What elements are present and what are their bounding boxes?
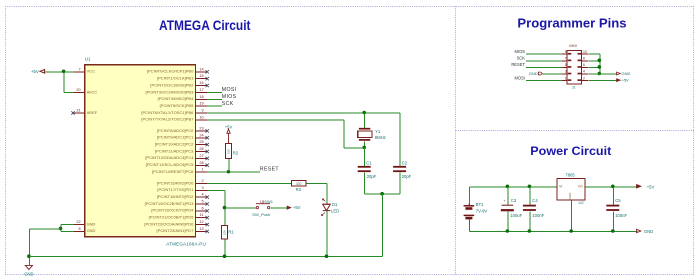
svg-text:[PCINT19/OC2B/INT1]PD3: [PCINT19/OC2B/INT1]PD3 [145, 201, 195, 206]
svg-text:[PCINT5/SCK]PB5: [PCINT5/SCK]PB5 [160, 103, 194, 108]
svg-text:9: 9 [201, 109, 203, 113]
svg-text:[PCINT20/XCK/T0]PD4: [PCINT20/XCK/T0]PD4 [151, 208, 194, 213]
svg-text:18: 18 [199, 95, 203, 99]
svg-text:RESET: RESET [260, 167, 280, 173]
svg-text:7V-9V: 7V-9V [476, 209, 488, 214]
svg-text:SCK: SCK [222, 101, 234, 107]
svg-text:[PCINT23/AIN1]PD7: [PCINT23/AIN1]PD7 [157, 228, 195, 233]
svg-text:100uF: 100uF [510, 213, 522, 218]
svg-text:GND: GND [87, 221, 96, 226]
svg-text:C4: C4 [532, 198, 538, 203]
svg-text:[PCINT22/OC0A/AIN0]PD6: [PCINT22/OC0A/AIN0]PD6 [144, 221, 194, 226]
svg-text:28: 28 [199, 161, 203, 165]
svg-text:GND: GND [622, 71, 631, 76]
svg-text:10: 10 [583, 50, 587, 54]
svg-text:10: 10 [199, 115, 203, 119]
svg-text:6: 6 [583, 63, 585, 67]
svg-text:1: 1 [201, 168, 203, 172]
svg-text:[PCINT1/OC1A]PB1: [PCINT1/OC1A]PB1 [157, 76, 194, 81]
svg-text:+5V: +5V [293, 205, 301, 210]
svg-text:BT1: BT1 [476, 202, 484, 207]
svg-text:[PCINT3/OC2A/MOSI]PB3: [PCINT3/OC2A/MOSI]PB3 [145, 89, 194, 94]
svg-text:R2: R2 [233, 150, 239, 155]
svg-text:R3: R3 [296, 187, 302, 192]
svg-text:[PCINT9/ADC1]PC1: [PCINT9/ADC1]PC1 [157, 135, 194, 140]
svg-text:1: 1 [260, 200, 262, 204]
svg-text:VI: VI [559, 184, 562, 188]
svg-text:J1: J1 [572, 85, 576, 89]
svg-text:+: + [503, 199, 505, 203]
svg-text:+5V: +5V [622, 78, 630, 83]
svg-text:17: 17 [199, 88, 203, 92]
svg-text:20pF: 20pF [367, 174, 377, 179]
svg-text:9: 9 [565, 50, 567, 54]
svg-text:Y1: Y1 [375, 129, 381, 134]
svg-text:8: 8 [583, 57, 585, 61]
svg-text:22: 22 [76, 220, 80, 224]
svg-text:100nF: 100nF [615, 213, 627, 218]
svg-text:100nF: 100nF [532, 213, 544, 218]
svg-text:14: 14 [199, 67, 203, 71]
svg-text:15: 15 [199, 74, 203, 78]
svg-text:26: 26 [199, 147, 203, 151]
svg-text:13: 13 [199, 227, 203, 231]
svg-text:11: 11 [200, 213, 204, 217]
svg-text:AVCC: AVCC [87, 89, 98, 94]
svg-text:+5V: +5V [647, 184, 655, 189]
svg-text:7805: 7805 [565, 172, 575, 177]
svg-text:[PCINT21/OC0B/T1]PD5: [PCINT21/OC0B/T1]PD5 [149, 215, 195, 220]
svg-text:4: 4 [583, 70, 585, 74]
svg-text:8MHz: 8MHz [375, 135, 386, 140]
svg-text:[PCINT16/RXD]PD0: [PCINT16/RXD]PD0 [157, 180, 194, 185]
svg-text:[PCINT4/MISO]PB4: [PCINT4/MISO]PB4 [158, 96, 195, 101]
svg-text:24: 24 [199, 133, 203, 137]
svg-text:ATMEGA168A-PU: ATMEGA168A-PU [166, 242, 206, 247]
svg-text:5: 5 [201, 199, 203, 203]
svg-text:5: 5 [565, 63, 567, 67]
svg-text:[PCINT12/SDA/ADC4]PC4: [PCINT12/SDA/ADC4]PC4 [145, 155, 194, 160]
svg-text:GND: GND [24, 271, 33, 276]
svg-text:+: + [468, 202, 470, 206]
svg-text:3: 3 [201, 186, 203, 190]
svg-text:8: 8 [78, 227, 80, 231]
svg-text:[PCINT13/SCL/ADC5]PC5: [PCINT13/SCL/ADC5]PC5 [146, 162, 194, 167]
svg-text:C3: C3 [511, 198, 517, 203]
svg-text:+5V: +5V [225, 124, 233, 129]
svg-text:[PCINT6/XTAL1/TOSC1]PB6: [PCINT6/XTAL1/TOSC1]PB6 [141, 110, 194, 115]
svg-text:MOSI: MOSI [515, 75, 525, 80]
svg-text:[PCINT17/TXD]PD1: [PCINT17/TXD]PD1 [157, 187, 194, 192]
svg-text:VO: VO [578, 184, 583, 188]
svg-text:4: 4 [201, 193, 203, 197]
svg-text:GND: GND [529, 71, 538, 76]
svg-text:MOSI: MOSI [222, 87, 237, 93]
svg-text:SW_Push: SW_Push [252, 212, 270, 217]
svg-text:R1: R1 [228, 230, 234, 235]
svg-text:GND: GND [87, 228, 96, 233]
svg-text:[PCINT10/ADC2]PC2: [PCINT10/ADC2]PC2 [155, 141, 194, 146]
svg-text:3: 3 [565, 70, 567, 74]
svg-text:7: 7 [78, 67, 80, 71]
svg-text:19: 19 [199, 102, 203, 106]
svg-text:SCK: SCK [517, 56, 526, 61]
svg-text:SW1: SW1 [264, 199, 273, 204]
svg-text:23: 23 [199, 126, 203, 130]
svg-text:10K: 10K [223, 230, 227, 235]
svg-text:21: 21 [76, 109, 80, 113]
svg-text:[PCINT0/CLKO/ICP1]PB0: [PCINT0/CLKO/ICP1]PB0 [147, 69, 194, 74]
svg-text:20pF: 20pF [402, 174, 412, 179]
svg-text:D1: D1 [332, 202, 338, 207]
svg-text:+5V: +5V [31, 69, 39, 74]
svg-text:MIOS: MIOS [222, 94, 237, 100]
svg-text:RESET: RESET [511, 62, 525, 67]
svg-text:GND: GND [568, 192, 572, 200]
svg-text:U1: U1 [85, 57, 91, 62]
svg-text:ATMEGA Circuit: ATMEGA Circuit [159, 18, 251, 33]
svg-text:VCC: VCC [87, 69, 95, 74]
svg-text:C2: C2 [402, 161, 408, 166]
svg-text:1: 1 [565, 76, 567, 80]
svg-text:12: 12 [199, 220, 203, 224]
svg-text:330: 330 [296, 182, 302, 186]
svg-text:LED: LED [331, 208, 339, 213]
svg-text:AREF: AREF [87, 110, 98, 115]
svg-text:16: 16 [199, 81, 203, 85]
svg-text:6: 6 [201, 206, 203, 210]
svg-text:10K: 10K [227, 149, 231, 154]
svg-text:25: 25 [199, 140, 203, 144]
svg-text:Power Circuit: Power Circuit [530, 144, 611, 158]
svg-text:[PCINT7/XTAL2/TOSC2]PB7: [PCINT7/XTAL2/TOSC2]PB7 [141, 117, 194, 122]
svg-text:2: 2 [201, 179, 203, 183]
svg-text:MIOS: MIOS [515, 49, 526, 54]
svg-text:7: 7 [565, 57, 567, 61]
svg-text:[PCINT11/ADC3]PC3: [PCINT11/ADC3]PC3 [155, 148, 194, 153]
svg-text:2: 2 [583, 76, 585, 80]
svg-text:Programmer Pins: Programmer Pins [517, 17, 626, 31]
svg-text:GND: GND [644, 229, 653, 234]
svg-text:[PCINT8/ADC0]PC0: [PCINT8/ADC0]PC0 [157, 128, 194, 133]
svg-text:27: 27 [199, 154, 203, 158]
svg-text:[PCINT2/OC1B/SS]PB2: [PCINT2/OC1B/SS]PB2 [150, 82, 194, 87]
svg-text:[PCINT18/INT0]PD2: [PCINT18/INT0]PD2 [157, 194, 194, 199]
svg-text:[PCINT14/RESET]PC6: [PCINT14/RESET]PC6 [152, 169, 194, 174]
svg-text:C1: C1 [366, 161, 372, 166]
svg-text:20: 20 [76, 88, 80, 92]
svg-text:C5: C5 [615, 198, 621, 203]
svg-text:U2: U2 [579, 200, 585, 205]
svg-text:MKII: MKII [569, 43, 577, 48]
